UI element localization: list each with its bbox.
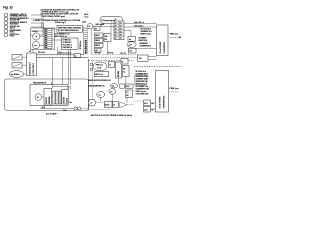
motor M2 (35, 94, 42, 101)
wire pwm dashes (170, 91, 180, 93)
svg-text:Fig. 3): Fig. 3) (3, 6, 12, 10)
svg-text:C2: C2 (123, 71, 125, 73)
box dcac (105, 102, 113, 108)
svg-text:Ov: Ov (110, 91, 112, 93)
svg-text:CURRENT: CURRENT (139, 37, 147, 39)
svg-text:DETECT-N a: DETECT-N a (10, 34, 19, 36)
terminal T6 (4, 33, 8, 37)
enclosure gen unit (30, 28, 54, 50)
controller box U1 (57, 26, 83, 33)
svg-text:IN-5 n2: IN-5 n2 (10, 28, 15, 30)
svg-text:x8a: x8a (45, 43, 48, 45)
battery circle 2 (78, 107, 81, 110)
divider dashed left (89, 60, 135, 62)
svg-text:41: 41 (29, 50, 31, 53)
box f3 (113, 102, 119, 108)
svg-text:x9a: x9a (45, 45, 48, 47)
terminal strip X1 (44, 29, 52, 50)
bus interface box bottom (156, 71, 169, 113)
wire battery dashes (81, 108, 88, 110)
box b1 (95, 72, 109, 77)
legend text block (33, 8, 81, 24)
signal row labels (55, 34, 70, 38)
node dot b (90, 68, 93, 71)
svg-text:IN-E 2: IN-E 2 (10, 32, 15, 34)
svg-text:AC1: AC1 (144, 102, 147, 105)
svg-text:CONVERTER: CONVERTER (164, 42, 166, 54)
svg-text:x3a: x3a (45, 33, 48, 35)
relay box K3 (95, 38, 104, 42)
brush bar 3 (59, 91, 61, 104)
relay box K6 (95, 48, 102, 52)
svg-text:MOT inv 2: MOT inv 2 (95, 74, 103, 76)
svg-text:a5: a5 (115, 35, 117, 37)
wire ac link out (148, 57, 157, 60)
svg-text:a2: a2 (115, 26, 117, 28)
wire motor to strip (40, 44, 45, 46)
svg-text:MOT adj N2: MOT adj N2 (96, 24, 105, 26)
svg-text:IN-E 2: IN-E 2 (10, 36, 15, 38)
svg-text:INJECTION: INJECTION (139, 40, 148, 42)
wire terminal leads (31, 15, 44, 35)
input shaper box B (12, 63, 22, 69)
svg-text:Gen N: Gen N (33, 31, 39, 33)
svg-text:REG 1: REG 1 (95, 35, 100, 37)
machine enclosure (30, 85, 68, 106)
bus line 1 (37, 54, 85, 56)
svg-text:CURRENT N ln: CURRENT N ln (141, 31, 152, 33)
hexagon sel (88, 100, 96, 106)
svg-text:x1a: x1a (45, 29, 48, 31)
svg-text:b1: b1 (120, 23, 122, 25)
bus line 2 (37, 57, 89, 59)
svg-text:x5a: x5a (45, 37, 48, 39)
small ac box 2 (144, 107, 151, 113)
svg-text:b6: b6 (120, 38, 122, 40)
svg-text:PWM_bus: PWM_bus (170, 88, 179, 90)
svg-text:INV DRV: INV DRV (118, 71, 120, 77)
oval bat (110, 84, 117, 88)
relay box K4 (104, 34, 111, 42)
svg-text:IN-E SET adj: IN-E SET adj (10, 26, 20, 28)
label rows bottom right (136, 70, 150, 96)
generator G1 (33, 31, 40, 40)
svg-text:Principal agent: Principal agent (102, 19, 116, 22)
svg-text:LOGIC UNIT 2: LOGIC UNIT 2 (33, 63, 35, 74)
wire lower links (93, 58, 128, 103)
svg-text:f2: f2 (122, 61, 124, 63)
wire bottom links to J (134, 101, 156, 109)
wedge arrow (120, 102, 127, 108)
box a4 (121, 59, 128, 65)
bus labels mid (58, 52, 127, 62)
wire dashed row lower (89, 103, 134, 110)
relay box K1 (94, 26, 100, 30)
svg-text:Lm: Lm (34, 45, 37, 47)
selector box T (27, 53, 37, 76)
ac link box (138, 55, 149, 61)
bus dashed cont 1 (92, 54, 138, 56)
svg-text:nf2: nf2 (95, 50, 98, 52)
svg-text:x0a: x0a (45, 47, 48, 49)
oval gnd (127, 42, 136, 48)
wire hp link (136, 48, 157, 50)
wire gen to strip (40, 36, 44, 38)
svg-text:x2a: x2a (45, 31, 48, 33)
wire k links (103, 35, 108, 55)
box d4 (126, 84, 134, 88)
clock circle (87, 24, 92, 29)
aux box lower (129, 48, 137, 53)
divider dashed right (134, 66, 181, 68)
relay box K5 (95, 43, 104, 47)
wire machine top link (53, 58, 71, 90)
wire shaft down (32, 49, 34, 53)
svg-text:a1: a1 (115, 23, 117, 25)
svg-text:ROTOR: ROTOR (63, 96, 65, 103)
svg-text:DRIVE MOTOR CONTROL N2: DRIVE MOTOR CONTROL N2 (89, 80, 111, 82)
logic box U2 (62, 38, 79, 50)
svg-text:N3: N3 (126, 95, 128, 97)
stator box (44, 89, 52, 106)
wire drop lines center (58, 47, 71, 85)
wire shaper B to T (22, 64, 27, 66)
svg-text:REG 2: REG 2 (95, 40, 100, 42)
svg-text:inv: inv (99, 94, 101, 96)
svg-text:b2: b2 (152, 109, 154, 111)
svg-text:x6a: x6a (45, 39, 48, 41)
svg-text:hm 2: hm 2 (85, 17, 89, 19)
aux box hp (128, 37, 136, 42)
box e3 (126, 90, 133, 98)
svg-text:INJECTION LN2: INJECTION LN2 (136, 81, 148, 83)
wire strip to U1 (52, 28, 57, 30)
box d3 (120, 84, 125, 88)
wire strip to U2 (52, 39, 62, 41)
svg-text:ST ACC REG MODULE 2: ST ACC REG MODULE 2 (58, 29, 79, 32)
terminal T2 (4, 17, 8, 21)
svg-text:PWR_bus: PWR_bus (170, 34, 179, 36)
svg-text:x7a: x7a (45, 41, 48, 43)
svg-text:NF: NF (123, 68, 125, 70)
svg-text:COILS: COILS (66, 97, 68, 103)
wire bottom rail (40, 108, 74, 110)
rotor box (62, 90, 69, 105)
small ac box 1 (144, 100, 151, 106)
svg-text:b5: b5 (120, 35, 122, 37)
bus interface box top (157, 25, 169, 56)
svg-text:FLD LIM C 3: FLD LIM C 3 (63, 45, 72, 47)
svg-text:gnd: gnd (129, 45, 132, 47)
svg-text:SUPPLY N ac-b: SUPPLY N ac-b (136, 84, 148, 86)
svg-text:a6: a6 (115, 38, 117, 40)
svg-text:s2: s2 (90, 103, 92, 105)
wire legend leaders (42, 23, 44, 29)
svg-text:b2: b2 (120, 26, 122, 28)
terminal labels (10, 13, 29, 38)
input shaper box A (12, 55, 22, 61)
svg-text:c2: c2 (109, 64, 111, 66)
svg-text:STATOR: STATOR (45, 97, 48, 104)
svg-text:CH-A POWER: CH-A POWER (159, 41, 162, 53)
terminal T4 (4, 25, 8, 29)
svg-text:ST REG B 2: ST REG B 2 (63, 42, 72, 44)
svg-text:ST-C SENSE N-1 c/a: ST-C SENSE N-1 c/a (55, 34, 70, 36)
connector J1 (114, 21, 124, 40)
svg-text:MOTOR 2-CH SYST DRIVE D-GPM x2: MOTOR 2-CH SYST DRIVE D-GPM x2-14 hb (91, 114, 133, 117)
terminal T1 (4, 13, 8, 17)
vehicle boundary (5, 79, 89, 110)
wire shaper A to T (22, 56, 27, 58)
bus dashed cont 2 (92, 57, 138, 59)
svg-text:INJECT LN 2a: INJECT LN 2a (141, 33, 152, 35)
svg-text:REG 3: REG 3 (95, 45, 100, 47)
brush bar 1 (53, 91, 55, 104)
wire J1 outputs (124, 24, 157, 42)
label tach rows (134, 21, 152, 35)
stadium pwr on (93, 62, 107, 71)
relay box K2 (95, 33, 104, 37)
svg-text:CT: CT (126, 92, 128, 94)
oval inv (97, 92, 105, 98)
wire stadium drops (93, 23, 118, 33)
stadium label box (100, 17, 123, 24)
wire section divider vertical (88, 59, 90, 110)
svg-text:REG LIM N-2 c/a: REG LIM N-2 c/a (55, 36, 67, 38)
svg-text:AC2: AC2 (144, 108, 147, 111)
svg-text:a3: a3 (115, 29, 117, 31)
svg-text:b3: b3 (120, 29, 122, 31)
svg-text:f3: f3 (114, 105, 116, 107)
svg-text:N2: N2 (105, 39, 107, 41)
svg-text:PWR on2: PWR on2 (96, 65, 103, 67)
svg-text:-PLNT FREQ CNTRL genl: -PLNT FREQ CNTRL genl (41, 16, 65, 18)
node dot a (90, 63, 93, 66)
wire pwr bus arrow (170, 36, 182, 38)
svg-text:CURRENT INJ N: CURRENT INJ N (136, 79, 149, 81)
svg-text:CONVERTER LN2: CONVERTER LN2 (136, 89, 150, 91)
wire motor link (42, 96, 44, 98)
charger text rows (139, 37, 151, 47)
terminal T5 (4, 29, 8, 33)
bus tap box (74, 54, 81, 58)
label frame box (135, 75, 147, 85)
svg-text:WINDING: WINDING (49, 96, 51, 104)
brush bar 2 (56, 91, 58, 104)
vertical box v1 (116, 62, 122, 78)
wire oval to T (24, 73, 27, 75)
svg-text:Ign A/Stat: Ign A/Stat (11, 73, 20, 76)
svg-text:CH-B POWER: CH-B POWER (159, 96, 161, 108)
svg-text:sN 12: sN 12 (84, 14, 88, 16)
terminal T3 (4, 21, 8, 25)
oval ov (109, 89, 116, 95)
vertical ladder bus (84, 27, 91, 55)
svg-text:NOTE: sig 2: NOTE: sig 2 (55, 22, 66, 24)
svg-text:LINK 2 sys ac: LINK 2 sys ac (136, 91, 146, 93)
svg-text:B-L P1/GP: B-L P1/GP (46, 114, 57, 116)
svg-text:MODE SELECT: MODE SELECT (30, 61, 32, 74)
svg-text:CONVERTER 2: CONVERTER 2 (140, 45, 151, 47)
svg-text:Cm2: Cm2 (63, 110, 66, 112)
svg-text:a2: a2 (152, 103, 154, 105)
svg-text:ST FLD 2 ab: ST FLD 2 ab (80, 41, 82, 50)
oval ign stat (9, 71, 23, 78)
box a2 (109, 62, 115, 68)
motor LM (32, 42, 39, 49)
box a3 (123, 66, 130, 77)
svg-text:CONVERTER 2: CONVERTER 2 (163, 96, 165, 109)
battery circle 1 (74, 107, 77, 110)
svg-text:ln2: ln2 (130, 51, 133, 53)
svg-text:M: M (37, 97, 39, 99)
